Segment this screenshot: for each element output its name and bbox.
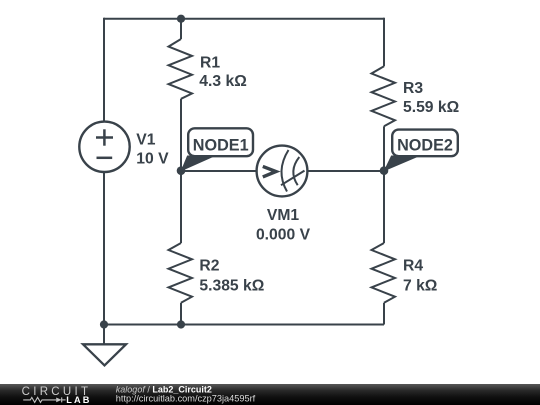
wire middle vertical mid <box>180 99 182 243</box>
svg-text:LAB: LAB <box>66 395 91 405</box>
svg-text:R2: R2 <box>199 258 219 275</box>
wire voltmeter right <box>308 170 385 172</box>
wire ground stem <box>103 325 105 345</box>
wire bottom horizontal <box>104 324 384 326</box>
svg-text:R4: R4 <box>403 258 423 275</box>
node junction dot bottom left <box>100 320 108 328</box>
wire middle vertical lower <box>180 303 182 325</box>
svg-text:10 V: 10 V <box>136 151 169 168</box>
wire left vertical upper <box>103 18 105 122</box>
resistor R4 <box>372 243 396 303</box>
svg-text:5.59 kΩ: 5.59 kΩ <box>403 99 459 116</box>
svg-text:0.000 V: 0.000 V <box>256 227 311 244</box>
resistor R3 <box>372 66 396 126</box>
svg-text:NODE1: NODE1 <box>193 136 249 154</box>
ground <box>83 344 126 365</box>
node junction dot top <box>177 15 185 23</box>
voltage source V1 <box>79 122 129 172</box>
svg-text:VM1: VM1 <box>267 207 300 224</box>
wire right vertical mid <box>383 126 385 243</box>
node NODE1 dot <box>177 166 186 175</box>
svg-text:5.385 kΩ: 5.385 kΩ <box>199 278 264 295</box>
svg-text:4.3 kΩ: 4.3 kΩ <box>199 73 246 90</box>
wire right vertical lower <box>383 303 385 325</box>
node junction dot bottom middle <box>177 320 185 328</box>
node NODE1 callout <box>182 128 254 170</box>
wire voltmeter left <box>181 170 257 172</box>
resistor R2 <box>169 243 193 303</box>
wire right vertical upper <box>383 18 385 67</box>
resistor R1 <box>169 39 193 99</box>
svg-text:R1: R1 <box>200 55 220 72</box>
wire middle vertical upper <box>180 19 182 39</box>
svg-text:NODE2: NODE2 <box>397 136 453 154</box>
node NODE2 callout <box>385 130 458 171</box>
footer bar <box>0 384 540 405</box>
svg-text:7 kΩ: 7 kΩ <box>403 278 437 295</box>
svg-text:V1: V1 <box>136 131 155 148</box>
voltmeter VM1 <box>257 146 308 197</box>
svg-text:R3: R3 <box>403 80 423 97</box>
node NODE2 dot <box>380 166 389 175</box>
logo resistor-diode squiggle <box>23 397 65 402</box>
wire top horizontal <box>104 18 384 20</box>
svg-text:http://circuitlab.com/czp73ja4: http://circuitlab.com/czp73ja4595rf <box>116 394 256 404</box>
wire left vertical lower <box>103 172 105 325</box>
